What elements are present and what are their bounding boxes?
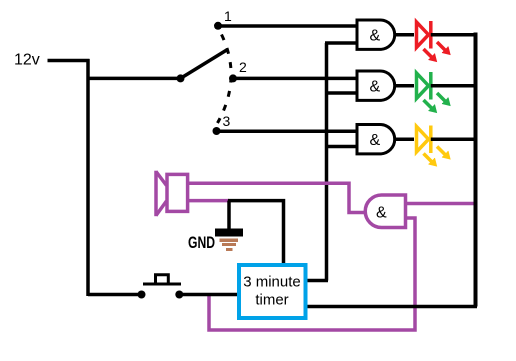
wire position 1 to gate U1 input A — [218, 24, 357, 28]
svg-text:&: & — [370, 28, 381, 45]
push button S1 contact dot right — [175, 291, 183, 299]
switch SW1 dashed travel arc — [218, 35, 232, 124]
svg-text:&: & — [370, 132, 381, 149]
svg-text:GND: GND — [188, 233, 215, 252]
and-gate U3 — [357, 125, 395, 154]
wire U3 output to LED D3 — [395, 137, 414, 141]
wire stub bus to U3 input B — [325, 145, 357, 149]
svg-text:1: 1 — [224, 8, 232, 24]
switch SW1 pole dot — [177, 74, 185, 82]
wire speaker bottom (magenta) — [189, 199, 229, 203]
wire LED D2 to right bus — [431, 84, 477, 88]
LED D2 (green) — [417, 72, 451, 113]
switch SW1 contact dot 1 — [214, 22, 222, 30]
wire branch to switch pole — [88, 77, 181, 81]
wire position 2 to gate U2 input A — [233, 77, 357, 81]
LED D1 (red) — [417, 21, 451, 62]
svg-text:&: & — [376, 205, 387, 222]
timer box (3 minute timer) — [239, 265, 306, 318]
wire right bus vertical — [474, 33, 478, 307]
wire button to timer input — [179, 293, 239, 297]
wire stub bus to U2 input B — [325, 91, 357, 95]
and-gate U1 — [357, 20, 395, 49]
svg-text:3: 3 — [223, 113, 231, 129]
wire speaker return to timer top (black) — [228, 201, 284, 264]
svg-text:&: & — [370, 79, 381, 96]
wire timer lower output to right bus — [306, 305, 477, 309]
wire bottom from left bus to button — [88, 293, 142, 297]
wire LED D1 to right bus — [431, 33, 477, 37]
switch SW1 contact dot 3 — [213, 127, 221, 135]
wire stub bus to U1 input B — [325, 41, 357, 45]
wire 12v feed horizontal — [48, 59, 90, 63]
wire GND tap — [227, 201, 231, 229]
ground symbol bar 4 — [226, 248, 233, 251]
push button S1 contact dot left — [138, 291, 146, 299]
ground symbol bar 2 — [220, 239, 239, 243]
wire U4 lower pin loop (magenta) — [209, 218, 415, 330]
wire timer upper output to middle bus — [306, 279, 328, 283]
switch SW1 contact dot 2 — [229, 74, 237, 82]
and-gate U4 (purple, mirrored) — [365, 195, 405, 228]
wire timer bus vertical (middle) — [325, 43, 329, 281]
wire U4 output to right bus (magenta) — [406, 202, 476, 206]
and-gate U2 — [357, 71, 395, 100]
LED D3 (yellow) — [417, 126, 451, 167]
wire U1 output to LED D1 — [395, 33, 414, 37]
switch SW1 lever — [181, 50, 228, 79]
wire position 3 to gate U3 input A — [217, 129, 358, 133]
ground symbol top bar — [215, 229, 243, 237]
svg-text:2: 2 — [239, 59, 247, 75]
speaker LS1 — [156, 171, 188, 217]
wire speaker top to purple gate (magenta) — [189, 183, 364, 212]
wire left bus vertical — [86, 59, 90, 296]
wire U2 output to LED D2 — [395, 84, 414, 88]
wire LED D3 to right bus — [431, 137, 477, 141]
push button S1 actuator — [143, 275, 181, 284]
svg-text:12v: 12v — [14, 52, 40, 69]
svg-text:timer: timer — [255, 292, 288, 309]
svg-text:3 minute: 3 minute — [243, 274, 301, 291]
ground symbol bar 3 — [222, 243, 236, 246]
